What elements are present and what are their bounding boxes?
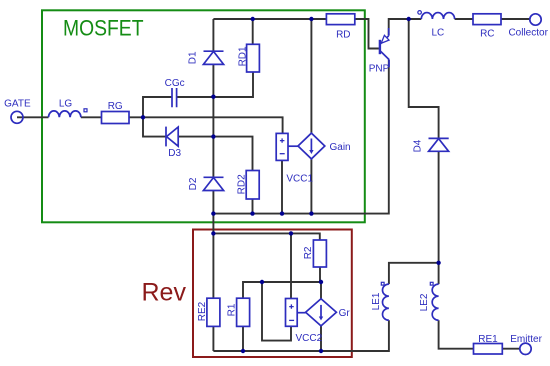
- resistor RD: [326, 14, 354, 25]
- svg-text:CGc: CGc: [165, 78, 185, 89]
- inductor LC: [421, 13, 454, 19]
- source VCC2: [286, 299, 306, 327]
- LG polarity square: [84, 109, 87, 112]
- svg-text:Collector: Collector: [508, 28, 548, 39]
- wire Gain column: [310, 19, 312, 214]
- capacitor CGc: [172, 88, 177, 107]
- svg-text:LE2: LE2: [419, 293, 430, 311]
- wire Rev top bus and R2: [213, 233, 320, 282]
- svg-text:RE1: RE1: [478, 334, 498, 345]
- wire PNP emitter riser rail right: [389, 19, 530, 35]
- diode D2: [203, 177, 223, 190]
- wire node line R1: [243, 282, 321, 351]
- svg-text:Rev: Rev: [142, 279, 187, 307]
- inductor LG: [49, 111, 81, 117]
- svg-text:Gain: Gain: [330, 142, 351, 153]
- svg-text:RG: RG: [108, 101, 123, 112]
- wire D4 branch: [213, 19, 438, 351]
- resistor R2: [313, 240, 326, 267]
- svg-text:VCC1: VCC1: [286, 174, 313, 185]
- svg-text:RD: RD: [336, 30, 350, 41]
- wire VCC2 minus loop: [262, 282, 291, 341]
- svg-text:RC: RC: [480, 29, 494, 40]
- wire CGc branch: [143, 72, 253, 117]
- resistor RG: [102, 112, 130, 124]
- wire bottom bus MOSFET: [213, 60, 388, 214]
- svg-text:LG: LG: [59, 99, 73, 110]
- resistor RE2: [207, 298, 220, 326]
- svg-text:RD1: RD1: [238, 46, 249, 66]
- wire main vertical D1 D2 column: [212, 19, 214, 351]
- Collector terminal: [530, 14, 541, 25]
- svg-text:R1: R1: [226, 303, 237, 316]
- Emitter terminal: [520, 343, 531, 354]
- LE1 polarity square: [381, 282, 384, 285]
- LE2 polarity square: [430, 282, 433, 285]
- dependent source Gr: [306, 299, 337, 326]
- wire VCC1 bottom: [281, 160, 283, 213]
- svg-text:MOSFET: MOSFET: [63, 16, 144, 41]
- source VCC1: [276, 133, 298, 160]
- resistor R1: [237, 298, 250, 326]
- svg-text:RE2: RE2: [197, 301, 208, 321]
- resistor RE1: [474, 344, 503, 355]
- diode D4: [429, 138, 449, 151]
- wire LE2 bottom emitter line: [439, 263, 520, 349]
- GATE terminal: [11, 111, 23, 123]
- svg-text:D2: D2: [188, 177, 199, 190]
- dependent source Gain: [298, 133, 325, 159]
- wire top rail: [213, 19, 379, 49]
- svg-text:Gr: Gr: [339, 308, 351, 319]
- diode D3: [166, 127, 178, 147]
- svg-text:VCC2: VCC2: [296, 333, 323, 344]
- svg-text:D3: D3: [168, 148, 181, 159]
- Rev box: [193, 230, 352, 358]
- wire RD1 top: [252, 19, 254, 44]
- svg-text:LE1: LE1: [371, 292, 382, 310]
- svg-text:D4: D4: [412, 139, 423, 152]
- resistor RD1: [247, 44, 260, 72]
- inductor LE2: [432, 284, 438, 320]
- LC polarity circle: [418, 11, 422, 15]
- svg-text:R2: R2: [303, 246, 314, 259]
- wire D3 RD2 branch: [143, 117, 253, 213]
- wire gate main: [17, 117, 283, 133]
- MOSFET box: [42, 10, 365, 222]
- svg-text:RD2: RD2: [237, 174, 248, 194]
- wire VCC2 top: [290, 233, 292, 298]
- transistor Q1 PNP: [380, 28, 389, 67]
- diode D1: [203, 51, 223, 64]
- svg-text:GATE: GATE: [4, 99, 31, 110]
- resistor RD2: [246, 171, 259, 200]
- svg-text:LC: LC: [432, 28, 445, 39]
- svg-text:D1: D1: [187, 51, 198, 64]
- resistor RC: [473, 14, 501, 25]
- wire Gr column: [320, 282, 322, 351]
- inductor LE1: [383, 284, 389, 320]
- svg-text:PNP: PNP: [369, 64, 390, 75]
- svg-text:Emitter: Emitter: [510, 334, 542, 345]
